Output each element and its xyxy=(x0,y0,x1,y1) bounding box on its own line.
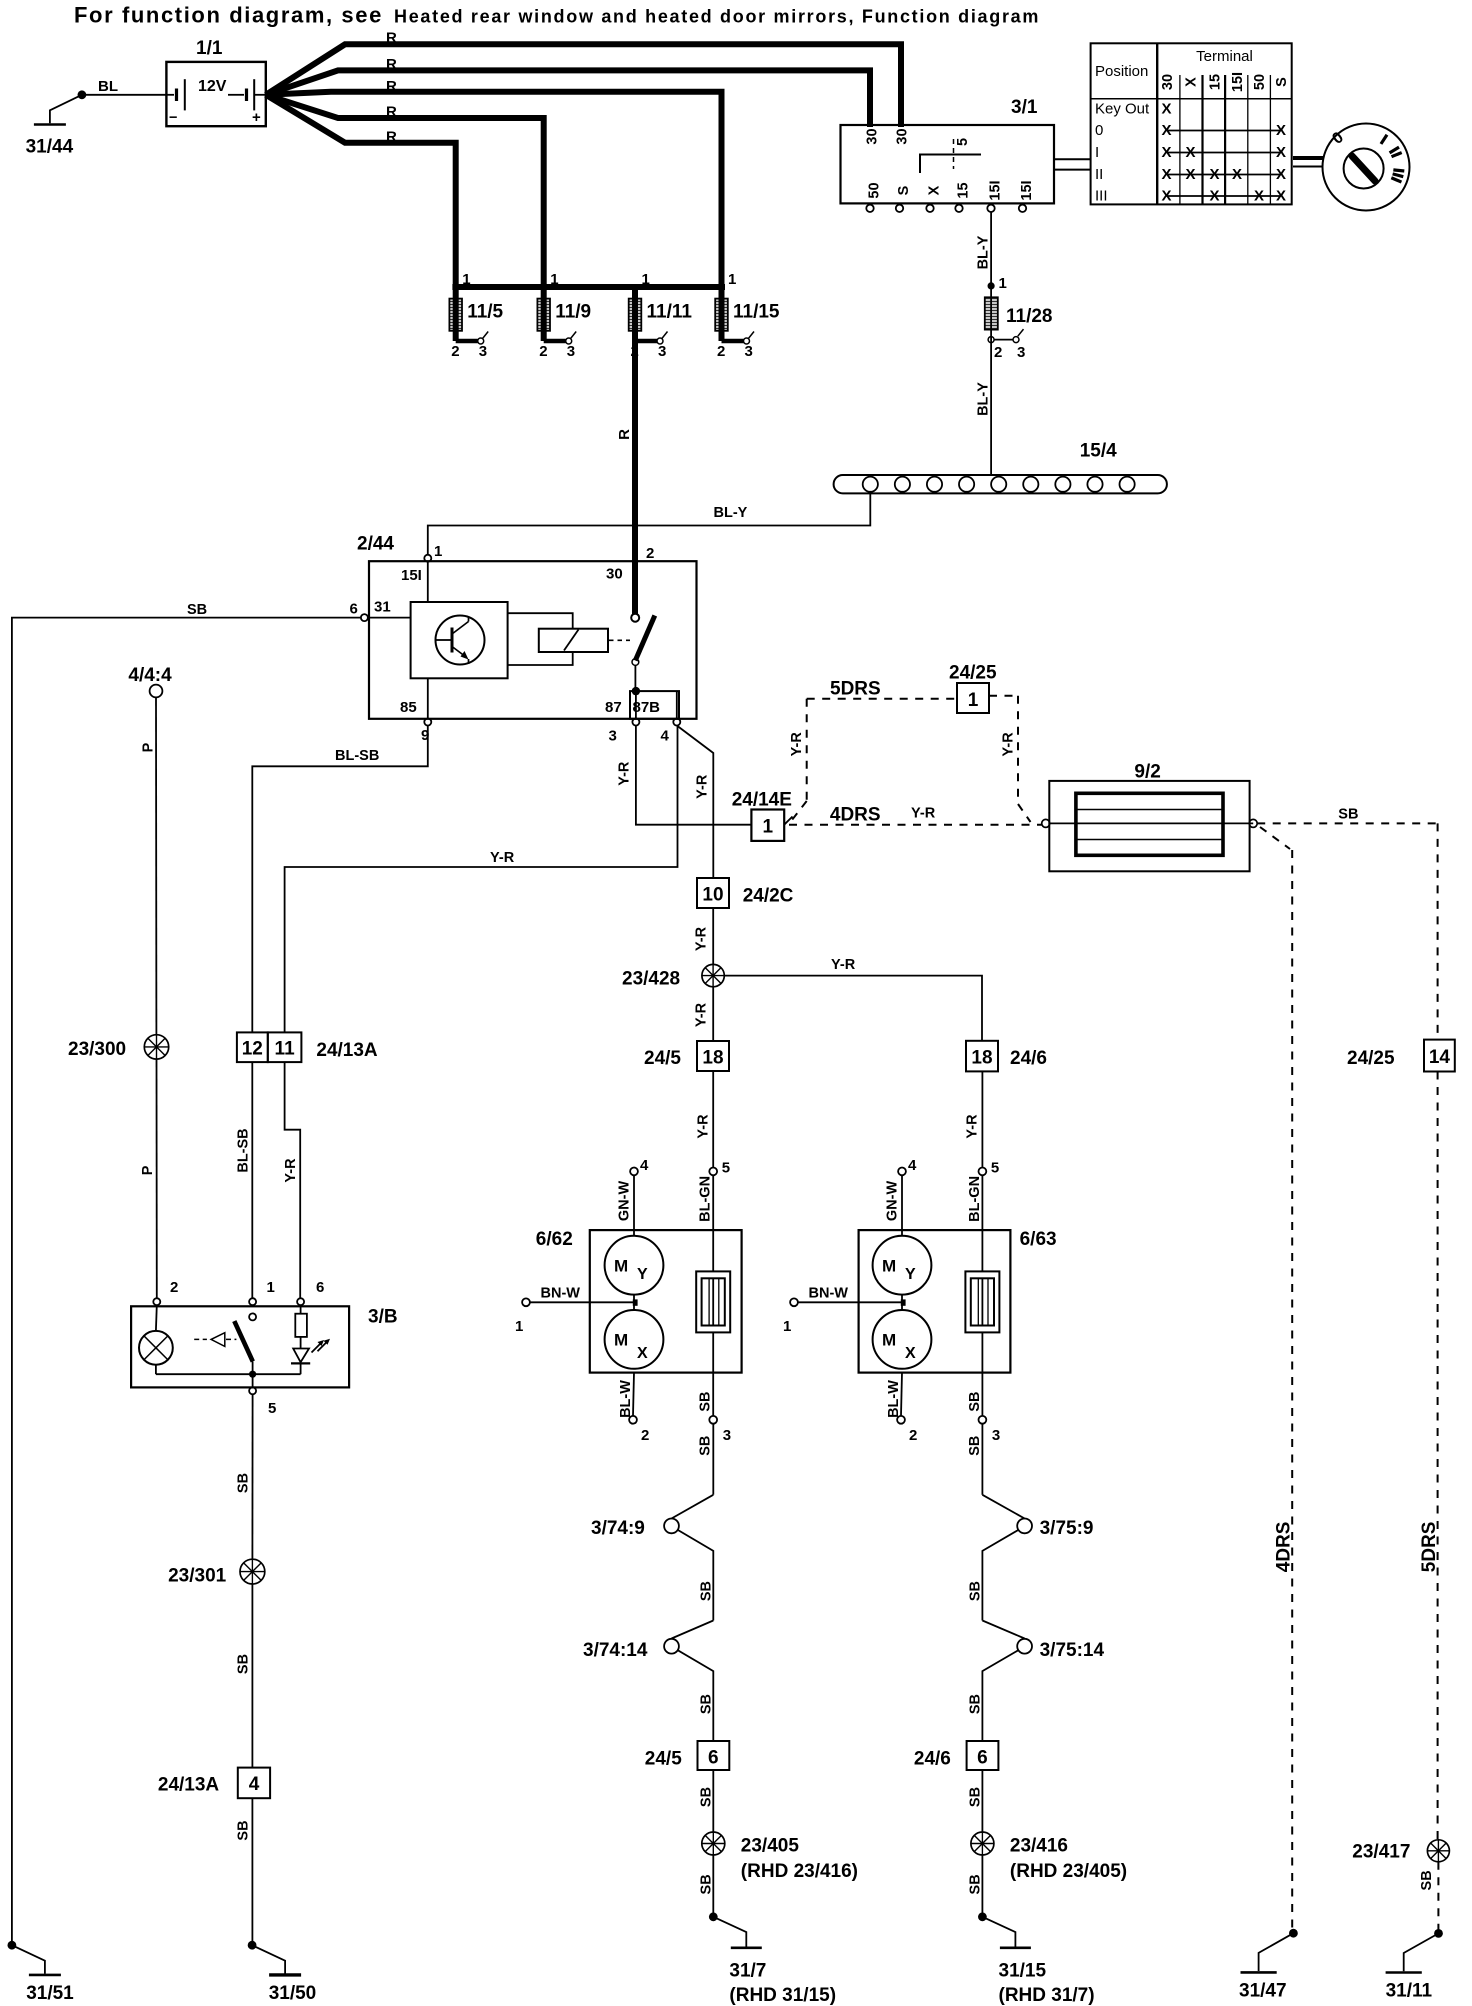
svg-text:24/13A: 24/13A xyxy=(158,1775,220,1796)
svg-text:5DRS: 5DRS xyxy=(830,679,881,700)
svg-text:X: X xyxy=(1276,122,1286,139)
svg-text:3: 3 xyxy=(723,1427,731,1444)
svg-text:4: 4 xyxy=(249,1774,260,1795)
svg-text:24/25: 24/25 xyxy=(1347,1048,1395,1069)
svg-text:SB: SB xyxy=(1419,1870,1435,1890)
svg-text:3/B: 3/B xyxy=(368,1307,398,1328)
svg-text:X: X xyxy=(1184,77,1200,87)
svg-text:SB: SB xyxy=(968,1694,984,1714)
svg-text:X: X xyxy=(1276,144,1286,161)
svg-text:15I: 15I xyxy=(1230,72,1246,92)
svg-text:12V: 12V xyxy=(198,78,227,95)
svg-text:6/63: 6/63 xyxy=(1020,1229,1057,1250)
svg-text:Y-R: Y-R xyxy=(283,1158,299,1183)
svg-text:SB: SB xyxy=(698,1694,714,1714)
svg-text:30: 30 xyxy=(865,128,881,144)
svg-text:31/11: 31/11 xyxy=(1386,1981,1433,2002)
svg-text:23/416: 23/416 xyxy=(1010,1836,1068,1857)
svg-text:I: I xyxy=(1095,144,1099,161)
svg-text:SB: SB xyxy=(698,1787,714,1807)
svg-text:BL-SB: BL-SB xyxy=(235,1128,251,1172)
svg-text:M: M xyxy=(882,1257,896,1276)
svg-text:+: + xyxy=(252,109,261,126)
svg-text:X: X xyxy=(1161,122,1171,139)
svg-text:M: M xyxy=(614,1331,628,1350)
svg-text:9/2: 9/2 xyxy=(1134,762,1160,783)
svg-text:31/51: 31/51 xyxy=(26,1983,74,2004)
svg-text:P: P xyxy=(141,742,157,752)
svg-text:31/50: 31/50 xyxy=(269,1983,317,2004)
svg-text:R: R xyxy=(386,56,397,73)
svg-text:18: 18 xyxy=(702,1048,723,1069)
svg-text:SB: SB xyxy=(967,1392,983,1412)
svg-text:X: X xyxy=(1161,166,1171,183)
svg-text:R: R xyxy=(386,129,397,146)
svg-text:Heated rear window and heated: Heated rear window and heated door mirro… xyxy=(394,7,1040,27)
svg-text:5: 5 xyxy=(955,138,971,146)
svg-text:(RHD 23/405): (RHD 23/405) xyxy=(1010,1861,1127,1882)
svg-text:11/11: 11/11 xyxy=(647,302,693,323)
svg-text:15I: 15I xyxy=(1019,180,1035,200)
svg-text:X: X xyxy=(927,185,943,195)
svg-text:24/6: 24/6 xyxy=(1010,1048,1047,1069)
svg-text:2/44: 2/44 xyxy=(357,534,394,555)
svg-text:1: 1 xyxy=(642,271,650,288)
svg-text:1: 1 xyxy=(434,543,442,560)
svg-text:3/75:14: 3/75:14 xyxy=(1040,1640,1105,1661)
svg-text:2: 2 xyxy=(646,545,654,562)
svg-text:3: 3 xyxy=(658,343,666,360)
svg-text:BN-W: BN-W xyxy=(541,1286,581,1302)
svg-text:11/15: 11/15 xyxy=(733,302,780,323)
svg-text:X: X xyxy=(1276,188,1286,205)
svg-text:2: 2 xyxy=(909,1427,917,1444)
svg-text:BL-GN: BL-GN xyxy=(698,1176,714,1222)
svg-text:R: R xyxy=(616,429,633,440)
svg-text:SB: SB xyxy=(235,1654,251,1674)
svg-text:X: X xyxy=(637,1345,648,1362)
svg-text:6: 6 xyxy=(350,601,358,618)
svg-text:3: 3 xyxy=(609,728,617,745)
svg-text:Y-R: Y-R xyxy=(1001,732,1017,757)
svg-text:31/15: 31/15 xyxy=(999,1961,1047,1982)
svg-text:11/9: 11/9 xyxy=(555,302,591,323)
svg-text:Y-R: Y-R xyxy=(617,761,633,786)
svg-text:1: 1 xyxy=(783,1318,791,1335)
svg-text:X: X xyxy=(1185,144,1195,161)
svg-text:X: X xyxy=(1185,166,1195,183)
svg-text:3/75:9: 3/75:9 xyxy=(1040,1518,1094,1539)
svg-text:X: X xyxy=(1161,188,1171,205)
svg-text:Terminal: Terminal xyxy=(1196,48,1253,65)
svg-text:2: 2 xyxy=(170,1279,178,1296)
svg-text:1/1: 1/1 xyxy=(196,38,223,59)
svg-text:2: 2 xyxy=(539,343,547,360)
svg-text:15: 15 xyxy=(956,182,972,198)
svg-text:31/47: 31/47 xyxy=(1239,1981,1287,2002)
svg-text:15: 15 xyxy=(1208,74,1224,90)
svg-text:23/417: 23/417 xyxy=(1352,1842,1410,1863)
svg-text:SB: SB xyxy=(187,602,207,618)
svg-text:11/28: 11/28 xyxy=(1006,306,1053,327)
svg-text:30: 30 xyxy=(1160,74,1176,90)
svg-text:BL-Y: BL-Y xyxy=(714,505,748,521)
svg-text:Y-R: Y-R xyxy=(789,732,805,757)
svg-text:3: 3 xyxy=(479,343,487,360)
svg-text:3: 3 xyxy=(1017,344,1025,361)
svg-text:1: 1 xyxy=(999,275,1007,292)
svg-text:BL-Y: BL-Y xyxy=(976,382,992,416)
svg-text:31: 31 xyxy=(374,599,391,616)
svg-text:Y: Y xyxy=(905,1266,916,1283)
svg-text:BL: BL xyxy=(98,78,118,95)
svg-text:(RHD 23/416): (RHD 23/416) xyxy=(741,1861,858,1882)
svg-text:Y-R: Y-R xyxy=(965,1114,981,1139)
svg-text:(RHD 31/15): (RHD 31/15) xyxy=(729,1985,836,2006)
svg-text:SB: SB xyxy=(968,1787,984,1807)
svg-text:SB: SB xyxy=(698,1436,714,1456)
svg-text:1: 1 xyxy=(550,271,558,288)
svg-text:10: 10 xyxy=(702,885,723,906)
svg-text:5: 5 xyxy=(722,1160,730,1177)
svg-text:R: R xyxy=(386,78,397,95)
svg-text:4: 4 xyxy=(908,1157,917,1174)
svg-text:31/44: 31/44 xyxy=(26,137,74,158)
svg-text:P: P xyxy=(140,1165,156,1175)
svg-text:SB: SB xyxy=(235,1820,251,1840)
svg-text:X: X xyxy=(1209,188,1219,205)
svg-text:24/5: 24/5 xyxy=(644,1048,681,1069)
svg-text:S: S xyxy=(896,185,912,195)
svg-text:2: 2 xyxy=(641,1427,649,1444)
svg-text:Y-R: Y-R xyxy=(694,926,710,951)
svg-text:23/300: 23/300 xyxy=(68,1039,126,1060)
svg-text:15I: 15I xyxy=(988,180,1004,200)
svg-text:4: 4 xyxy=(640,1157,649,1174)
svg-text:III: III xyxy=(1095,188,1108,205)
svg-text:1: 1 xyxy=(462,271,470,288)
svg-text:2: 2 xyxy=(717,343,725,360)
svg-text:6: 6 xyxy=(316,1279,324,1296)
svg-text:0: 0 xyxy=(1095,122,1103,139)
svg-text:SB: SB xyxy=(698,1581,714,1601)
svg-text:5: 5 xyxy=(268,1400,276,1417)
svg-text:30: 30 xyxy=(606,566,623,583)
svg-text:SB: SB xyxy=(235,1473,251,1493)
svg-text:S: S xyxy=(1274,77,1290,87)
svg-text:BL-GN: BL-GN xyxy=(967,1176,983,1222)
svg-text:12: 12 xyxy=(242,1039,263,1060)
svg-text:II: II xyxy=(1095,166,1103,183)
svg-text:50: 50 xyxy=(1252,74,1268,90)
svg-text:(RHD 31/7): (RHD 31/7) xyxy=(999,1985,1095,2006)
svg-text:X: X xyxy=(1276,166,1286,183)
svg-text:24/13A: 24/13A xyxy=(316,1040,378,1061)
svg-text:X: X xyxy=(1209,166,1219,183)
svg-text:GN-W: GN-W xyxy=(616,1181,632,1222)
svg-text:1: 1 xyxy=(763,817,774,838)
svg-text:BN-W: BN-W xyxy=(809,1286,849,1302)
svg-text:24/14E: 24/14E xyxy=(732,790,792,811)
svg-text:2: 2 xyxy=(994,344,1002,361)
svg-text:BL-SB: BL-SB xyxy=(335,748,379,764)
svg-text:30: 30 xyxy=(895,128,911,144)
svg-text:23/405: 23/405 xyxy=(741,1836,800,1857)
svg-text:GN-W: GN-W xyxy=(884,1181,900,1222)
svg-text:11: 11 xyxy=(275,1039,296,1060)
svg-text:Y-R: Y-R xyxy=(695,774,711,799)
svg-text:Y-R: Y-R xyxy=(911,806,936,822)
svg-text:3/74:14: 3/74:14 xyxy=(583,1640,648,1661)
svg-text:Y-R: Y-R xyxy=(831,957,856,973)
svg-text:2: 2 xyxy=(451,343,459,360)
svg-text:3: 3 xyxy=(992,1427,1000,1444)
svg-text:Y-R: Y-R xyxy=(490,850,515,866)
svg-text:BL-W: BL-W xyxy=(618,1380,634,1418)
svg-text:SB: SB xyxy=(968,1874,984,1894)
svg-text:SB: SB xyxy=(698,1874,714,1894)
svg-text:4DRS: 4DRS xyxy=(830,805,881,826)
svg-text:6: 6 xyxy=(977,1748,988,1769)
svg-text:M: M xyxy=(882,1331,896,1350)
svg-text:15/4: 15/4 xyxy=(1080,441,1117,462)
svg-text:5: 5 xyxy=(991,1160,999,1177)
svg-text:X: X xyxy=(905,1345,916,1362)
svg-text:85: 85 xyxy=(400,699,417,716)
svg-text:1: 1 xyxy=(728,271,736,288)
svg-text:50: 50 xyxy=(867,182,883,198)
svg-text:X: X xyxy=(1161,144,1171,161)
svg-text:23/428: 23/428 xyxy=(622,969,680,990)
svg-text:4: 4 xyxy=(661,728,670,745)
svg-text:−: − xyxy=(169,110,177,126)
svg-text:1: 1 xyxy=(267,1279,275,1296)
svg-text:SB: SB xyxy=(698,1392,714,1412)
svg-text:6: 6 xyxy=(708,1748,719,1769)
svg-text:1: 1 xyxy=(515,1318,523,1335)
svg-text:X: X xyxy=(1232,166,1242,183)
svg-text:11/5: 11/5 xyxy=(467,302,503,323)
svg-text:R: R xyxy=(386,104,397,121)
svg-text:Y-R: Y-R xyxy=(694,1002,710,1027)
svg-text:R: R xyxy=(386,30,397,47)
svg-text:X: X xyxy=(1254,188,1264,205)
svg-text:4DRS: 4DRS xyxy=(1274,1522,1295,1573)
svg-text:24/25: 24/25 xyxy=(949,663,997,684)
svg-text:3: 3 xyxy=(745,343,753,360)
svg-text:SB: SB xyxy=(967,1436,983,1456)
svg-text:5DRS: 5DRS xyxy=(1419,1522,1440,1573)
svg-text:23/301: 23/301 xyxy=(168,1566,227,1587)
svg-text:3: 3 xyxy=(567,343,575,360)
svg-text:M: M xyxy=(614,1257,628,1276)
svg-text:24/2C: 24/2C xyxy=(743,886,794,907)
svg-text:4/4:4: 4/4:4 xyxy=(128,665,172,686)
svg-text:Y-R: Y-R xyxy=(695,1114,711,1139)
svg-text:87: 87 xyxy=(605,699,622,716)
svg-text:31/7: 31/7 xyxy=(729,1961,766,1982)
svg-text:1: 1 xyxy=(968,690,979,711)
svg-text:24/5: 24/5 xyxy=(645,1749,682,1770)
svg-text:SB: SB xyxy=(968,1581,984,1601)
svg-text:24/6: 24/6 xyxy=(914,1749,951,1770)
svg-text:For function diagram, see: For function diagram, see xyxy=(74,3,383,28)
svg-text:BL-W: BL-W xyxy=(886,1380,902,1418)
svg-text:Y: Y xyxy=(637,1266,648,1283)
svg-text:Position: Position xyxy=(1095,63,1148,80)
svg-text:BL-Y: BL-Y xyxy=(976,235,992,269)
svg-text:X: X xyxy=(1161,101,1171,118)
svg-text:14: 14 xyxy=(1429,1047,1451,1068)
svg-text:18: 18 xyxy=(971,1048,992,1069)
svg-text:Key Out: Key Out xyxy=(1095,101,1150,118)
svg-text:3/1: 3/1 xyxy=(1011,97,1038,118)
svg-text:6/62: 6/62 xyxy=(536,1229,573,1250)
svg-text:3/74:9: 3/74:9 xyxy=(591,1518,645,1539)
svg-text:15I: 15I xyxy=(401,567,422,584)
svg-text:SB: SB xyxy=(1338,807,1358,823)
